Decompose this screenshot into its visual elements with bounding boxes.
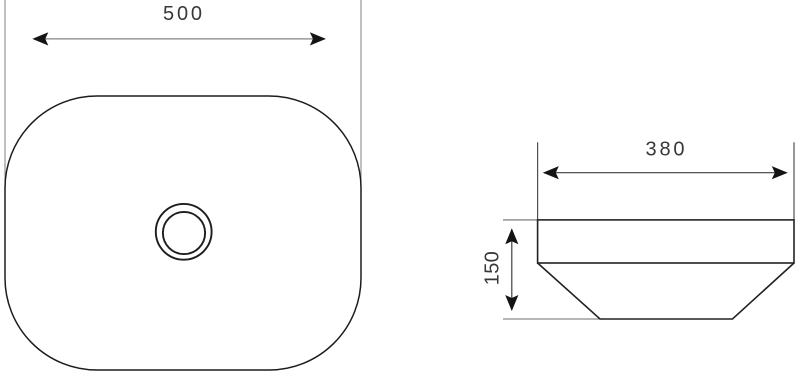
- extension tick bottom of 150: [503, 318, 601, 320]
- extension tick top of 150: [503, 219, 538, 221]
- drain inner circle: [163, 212, 205, 254]
- basin outline (top view rounded square): [5, 96, 361, 370]
- arrowhead right of 380: [772, 166, 788, 179]
- svg-text:380: 380: [646, 138, 685, 160]
- dimension line 500: [34, 38, 325, 40]
- extension line left (top view, x=5): [4, 0, 6, 190]
- arrowhead top of 150: [505, 228, 518, 244]
- arrowhead right of 500: [310, 32, 326, 45]
- arrowhead bottom of 150: [505, 295, 518, 311]
- extension line right (side view, x=794): [793, 142, 795, 220]
- arrowhead left of 380: [543, 166, 559, 179]
- drain outer circle: [156, 204, 212, 260]
- extension line left (side view, x=537.6): [537, 142, 539, 220]
- dimension line 150 (vertical): [511, 230, 513, 310]
- svg-text:500: 500: [163, 3, 202, 25]
- side view basin lower trapezoid: [538, 263, 794, 319]
- extension line right (top view, x=361): [360, 0, 362, 187]
- arrowhead left of 500: [32, 32, 48, 45]
- dimension line 380: [544, 172, 787, 174]
- svg-text:150: 150: [481, 251, 503, 285]
- side view basin rim rectangle: [538, 220, 794, 263]
